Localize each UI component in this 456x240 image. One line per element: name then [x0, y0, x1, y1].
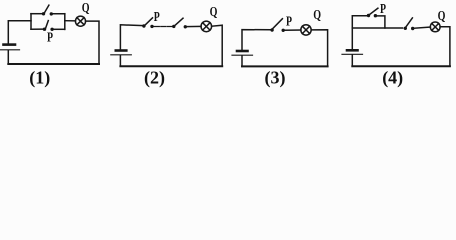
switch P right terminal	[150, 25, 153, 28]
switch S1a right terminal	[50, 12, 53, 15]
svg-text:P: P	[47, 31, 53, 46]
battery B4 bottom plate (long thin)	[342, 53, 363, 55]
switch S2b lever	[175, 18, 183, 25]
svg-text:(4): (4)	[382, 68, 403, 89]
switch P right terminal	[374, 14, 377, 17]
battery B2 top plate (short thick)	[116, 49, 127, 52]
switch S4b lever	[406, 18, 412, 27]
lamp Q (circuit3)	[301, 25, 311, 35]
switch P (circuit3): left terminal	[270, 28, 273, 31]
wire: switch to lamp	[414, 27, 430, 28]
switch S4b right terminal	[411, 27, 414, 30]
lamp Q (circuit1)	[75, 16, 85, 26]
wire: circuit4 left vertical up to bypass branch + branch left	[352, 16, 367, 50]
switch P (circuit4 branch): left terminal	[367, 14, 370, 17]
switch S4b: left terminal	[404, 27, 407, 30]
wire: battery to bottom	[241, 56, 243, 67]
switch P right terminal	[50, 28, 53, 31]
wire: circuit1 top branch right stub	[53, 13, 65, 15]
svg-text:P: P	[154, 10, 160, 25]
switch P (circuit1 bottom branch): left terminal	[43, 28, 46, 31]
svg-text:(1): (1)	[29, 68, 50, 89]
wire: box to lamp	[65, 20, 76, 22]
wire: circuit1 parallel-box right bar	[64, 14, 66, 30]
svg-text:(2): (2)	[144, 68, 165, 89]
switch S1a lever	[45, 5, 49, 12]
wire: circuit1 bottom branch left stub	[31, 28, 43, 30]
wire: circuit1 parallel-box left bar	[30, 14, 32, 30]
wire: circuit1 left vertical + top horizontal into box	[8, 21, 31, 43]
wire: lamp to right corner, right vertical	[440, 27, 450, 67]
switch P lever	[370, 8, 378, 14]
battery B1 top plate (short thick)	[4, 43, 16, 46]
wire: circuit4 bottom	[352, 65, 450, 67]
switch P right terminal	[282, 29, 285, 32]
svg-text:Q: Q	[210, 5, 218, 20]
svg-text:P: P	[380, 2, 386, 17]
wire: battery to bottom	[119, 56, 121, 67]
switch S2b: left terminal	[172, 25, 175, 28]
svg-text:Q: Q	[313, 8, 321, 23]
wire: circuit3 left vertical + top horizontal	[242, 30, 271, 51]
switch S1a top branch: left terminal	[42, 12, 45, 15]
lamp Q (circuit4)	[430, 22, 440, 32]
lamp Q (circuit2)	[201, 21, 212, 32]
wire: circuit4 main horizontal (shorting wire)	[352, 27, 402, 29]
svg-text:(3): (3)	[265, 68, 286, 89]
wire: battery to bottom	[351, 55, 353, 66]
battery B4 top plate (short thick)	[347, 49, 358, 52]
svg-text:Q: Q	[82, 1, 90, 16]
battery B2 bottom plate (long thin)	[111, 54, 132, 56]
battery B3 bottom plate (long thin)	[232, 54, 253, 56]
wire: lamp to right corner, right vertical	[311, 30, 327, 67]
wire: switch to lamp	[285, 29, 301, 31]
switch P (circuit2 first): left terminal	[142, 24, 145, 27]
battery B3 top plate (short thick)	[237, 50, 248, 53]
wire: circuit1 bottom branch right stub	[54, 28, 65, 30]
svg-text:P: P	[286, 15, 292, 30]
wire: branch right + right riser	[377, 16, 385, 28]
wire: lamp to right corner, right vertical	[212, 25, 223, 66]
svg-text:Q: Q	[438, 9, 446, 24]
wire: lamp to right corner, right vertical	[86, 21, 99, 64]
battery B1 bottom plate (long thin)	[1, 49, 20, 51]
switch P lever	[46, 21, 49, 28]
wire: dashed link between the two switches	[154, 26, 173, 28]
wire: circuit2 bottom	[120, 65, 222, 67]
wire: battery to bottom	[7, 51, 9, 65]
wire: circuit1 top branch left stub	[31, 13, 42, 15]
wire: circuit2 left vertical + top horizontal	[120, 25, 142, 50]
wire: circuit1 bottom	[8, 63, 99, 65]
switch S2b right terminal	[184, 25, 187, 28]
switch P lever	[273, 19, 283, 29]
switch P lever	[145, 18, 152, 25]
wire: switch to lamp	[187, 25, 201, 27]
wire: circuit3 bottom	[242, 65, 328, 67]
